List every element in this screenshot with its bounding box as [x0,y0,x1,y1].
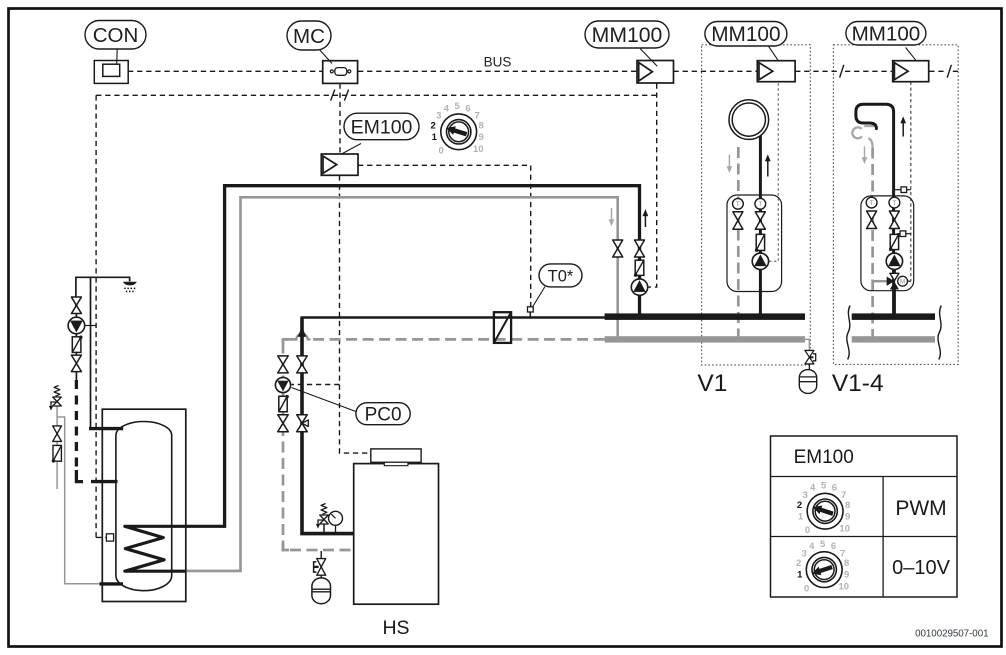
svg-text:MC: MC [293,25,325,48]
svg-text:2: 2 [430,120,435,131]
svg-text:V1: V1 [697,370,727,397]
svg-text:0: 0 [804,583,809,594]
svg-text:3: 3 [802,549,807,560]
svg-text:5: 5 [820,539,826,550]
svg-text:M: M [900,279,905,286]
svg-text:PWM: PWM [895,497,946,520]
svg-text:PC0: PC0 [365,405,402,426]
svg-text:9: 9 [845,511,850,522]
svg-text:4: 4 [810,483,816,494]
svg-text:1: 1 [432,132,438,143]
svg-text:9: 9 [844,570,849,581]
svg-text:10: 10 [839,582,850,593]
svg-text:V1-4: V1-4 [832,370,884,397]
svg-text:T: T [870,200,874,207]
svg-text:1: 1 [797,570,803,581]
svg-text:2: 2 [797,500,802,511]
svg-text:MM100: MM100 [852,23,921,46]
svg-text:3: 3 [803,490,808,501]
svg-text:T: T [892,200,896,207]
svg-text:0–10V: 0–10V [892,557,950,579]
svg-text:2: 2 [796,558,801,569]
svg-text:9: 9 [479,132,484,143]
svg-text:0: 0 [805,525,810,536]
svg-text:3: 3 [436,111,441,122]
svg-text:T: T [758,201,762,208]
svg-text:10: 10 [473,144,484,155]
svg-text:5: 5 [455,101,461,112]
svg-text:0010029507-001: 0010029507-001 [915,628,988,639]
svg-text:BUS: BUS [484,55,512,70]
svg-text:8: 8 [844,558,849,569]
svg-text:T: T [736,201,740,208]
svg-text:1: 1 [798,511,804,522]
svg-text:MM100: MM100 [592,24,663,47]
svg-text:5: 5 [821,480,827,491]
svg-text:8: 8 [845,500,850,511]
svg-text:6: 6 [831,541,836,552]
svg-text:MM100: MM100 [711,23,780,46]
svg-text:10: 10 [839,523,850,534]
svg-text:0: 0 [438,146,443,157]
svg-text:T0*: T0* [548,267,574,285]
svg-text:6: 6 [465,103,470,114]
svg-text:6: 6 [832,483,837,494]
svg-text:4: 4 [809,541,815,552]
svg-text:HS: HS [382,617,409,639]
svg-text:EM100: EM100 [794,447,854,468]
svg-text:4: 4 [444,103,450,114]
svg-text:EM100: EM100 [351,116,413,138]
svg-text:CON: CON [93,24,139,47]
svg-text:8: 8 [479,120,484,131]
